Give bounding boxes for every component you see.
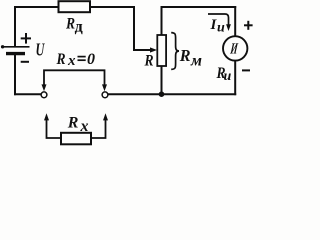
short-link bracket with two down arrows to contacts [44,70,105,85]
wire meter top lead [234,7,236,37]
contact left (open circle) [41,92,47,98]
contact right (open circle) [102,92,108,98]
battery short thick plate [6,52,25,55]
wire bottom horizontal right contact to meter [108,93,235,95]
wire pot top lead [161,7,163,35]
wire left vertical battery top lead [14,7,16,46]
wire bottom-left horizontal to left contact [15,93,41,95]
svg-text:и: и [217,21,225,36]
wire wiper feed vertical and horizontal into pot [134,7,151,50]
resistor Rd box [59,1,91,12]
svg-text:м: м [190,52,202,69]
battery minus sign [21,61,29,63]
current arrow over I_u [208,14,229,26]
arrowhead down right [102,84,107,91]
battery long plate [1,46,30,48]
svg-text:x: x [80,118,89,135]
meter plus sign [242,21,253,71]
arrowhead current down [226,24,231,31]
arrowhead up left [44,113,49,120]
junction dot [159,91,165,97]
meter minus sign [242,69,250,71]
label Rm [179,46,191,65]
Rx probe assembly: left up arrow [47,120,106,139]
svg-text:x: x [67,53,76,69]
label R_u [216,65,226,82]
svg-text:R: R [144,53,154,70]
arrowhead wiper (points right at pot) [150,47,157,52]
arrowhead down left [42,84,47,91]
label Rx [67,115,79,132]
potentiometer Rm box [157,35,166,66]
label U [36,40,46,60]
svg-text:и: и [224,69,232,84]
wire top-right horizontal pot to meter [162,6,236,8]
wire pot bottom lead [161,66,163,94]
label R wiper [144,53,154,70]
wire battery bottom lead down [14,54,16,94]
battery blob left end [1,45,4,48]
wire meter bottom lead [234,61,236,95]
meter circle U-meter [223,36,247,60]
svg-text:U: U [36,40,46,60]
svg-text:д: д [75,19,83,36]
resistor Rx box [61,133,91,145]
label Rx=0 [56,51,66,68]
arrowhead up right [103,113,108,120]
battery B1 [1,33,31,62]
svg-text:R: R [179,46,191,65]
svg-text:R: R [67,115,79,132]
wire top-left horizontal from battery to wiper corner [15,6,134,8]
svg-text:0: 0 [87,51,95,68]
svg-text:R: R [56,51,66,68]
battery plus sign [21,37,31,39]
label I (meter letter) [229,40,240,57]
brace for Rm [171,33,179,70]
label Rd [65,16,75,33]
